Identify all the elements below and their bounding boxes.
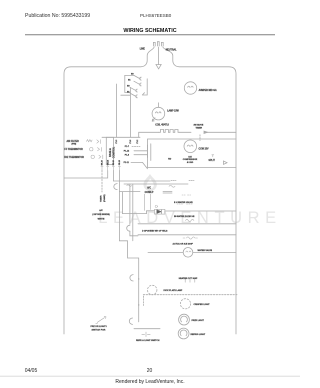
svg-text:WATER VALVE: WATER VALVE — [198, 249, 213, 252]
label compressor — [183, 156, 198, 164]
svg-text:PLHS67EESB0: PLHS67EESB0 — [140, 13, 172, 18]
wire row1 right — [165, 210, 236, 212]
svg-text:E H WATER VALVE: E H WATER VALVE — [174, 201, 193, 204]
svg-text:D SPOKE/BI WH OF HI/LS: D SPOKE/BI WH OF HI/LS — [142, 231, 168, 233]
wire P1-7 dashed — [132, 145, 140, 147]
connector arc C1 — [114, 184, 117, 190]
wire pin2 to left bus — [64, 171, 108, 179]
svg-text:CCW 15V: CCW 15V — [199, 149, 210, 151]
wire P1-12 — [134, 150, 148, 152]
wire coil to timer — [180, 131, 192, 133]
connector arc C2 — [127, 225, 130, 231]
timer cams dashed wire — [101, 171, 103, 193]
power plug prongs — [153, 42, 163, 46]
svg-text:LINE: LINE — [140, 49, 146, 51]
svg-text:KICK PLATE LAMP: KICK PLATE LAMP — [164, 289, 183, 292]
footer rule — [0, 375, 300, 377]
svg-text:(CAMS): (CAMS) — [103, 194, 106, 202]
thermistor R2 symbol — [90, 148, 93, 151]
svg-text:BK-16: BK-16 — [102, 160, 104, 165]
freezer lamp — [179, 314, 190, 325]
kick plate lamp — [148, 285, 157, 294]
svg-text:(I SPOKE INSIDE): (I SPOKE INSIDE) — [92, 214, 110, 216]
svg-text:A/C: A/C — [147, 187, 151, 190]
wire cams row2 — [124, 183, 188, 185]
svg-text:P1-2: P1-2 — [137, 140, 139, 144]
dashed lamp rail — [143, 294, 237, 296]
wire vertical feed A — [116, 84, 118, 137]
pin labels control board — [124, 146, 130, 164]
label base control rotated — [109, 146, 115, 158]
overload tick — [212, 155, 214, 157]
thermistor R1 symbol — [87, 140, 93, 142]
svg-text:ACTUA OR ICE 300F: ACTUA OR ICE 300F — [173, 243, 194, 246]
door switch box — [125, 75, 134, 92]
door switch S3 — [130, 87, 137, 92]
wire neutral side with right bus — [163, 47, 236, 334]
labels door switches — [127, 74, 134, 94]
water valve solenoid — [183, 248, 193, 258]
svg-text:SPLIT: SPLIT — [209, 160, 216, 162]
svg-text:WIRING SCHEMATIC: WIRING SCHEMATIC — [123, 28, 176, 34]
svg-text:BI-WATER DOOR HE: BI-WATER DOOR HE — [174, 215, 195, 218]
svg-text:WHITE: WHITE — [98, 218, 105, 220]
dashed feed to compressor — [199, 135, 201, 141]
wire vertical feed B — [130, 88, 132, 138]
svg-text:LAMP 15W: LAMP 15W — [167, 109, 179, 112]
svg-text:P1-12: P1-12 — [124, 151, 130, 153]
wire stub near conn — [163, 192, 172, 194]
svg-text:REFRIG LIGHT: REFRIG LIGHT — [191, 334, 206, 336]
svg-text:FRZ DR LIGHT /: FRZ DR LIGHT / — [91, 326, 108, 328]
svg-text:A/C: A/C — [99, 209, 103, 212]
wire row3 — [138, 234, 236, 236]
svg-text:Publication No: 5995433199: Publication No: 5995433199 — [25, 13, 90, 19]
wire pin4 down right — [119, 171, 172, 192]
svg-text:P1-11: P1-11 — [124, 162, 130, 164]
svg-text:3W MOVE: 3W MOVE — [194, 125, 204, 127]
defrost coil L1 — [159, 130, 180, 133]
svg-text:(P/N): (P/N) — [72, 144, 77, 146]
svg-text:FRZR LIGHT: FRZR LIGHT — [192, 320, 205, 322]
label A/C conn — [145, 187, 154, 194]
thermistor R3 symbol — [91, 155, 94, 158]
wire cluster tick — [121, 94, 130, 96]
svg-text:JUMPER MID GA: JUMPER MID GA — [199, 89, 218, 92]
cam squiggle — [127, 185, 132, 187]
watermark flame — [144, 174, 157, 191]
wire row1 left — [123, 211, 155, 214]
dashed door linkage — [143, 296, 145, 306]
freezer lamp 15W stem — [157, 103, 159, 108]
svg-text:FRZ THERMISTOR: FRZ THERMISTOR — [64, 157, 84, 159]
svg-text:COMPRESSOR: COMPRESSOR — [183, 159, 198, 161]
label freezer door switch — [91, 326, 108, 331]
door switch output wire — [142, 79, 147, 95]
vertical bus V1 — [119, 192, 138, 322]
svg-text:SWITCH FOR: SWITCH FOR — [92, 329, 106, 331]
svg-text:20: 20 — [147, 368, 153, 374]
label A/C spoke block — [92, 209, 110, 220]
junction ring — [155, 205, 157, 207]
wire P1-8 — [134, 154, 148, 156]
svg-text:LEADVENTURE: LEADVENTURE — [98, 209, 282, 227]
svg-text:NEUTRAL: NEUTRAL — [166, 49, 177, 52]
label timer cams rotated — [100, 194, 106, 202]
svg-text:OR-16: OR-16 — [119, 160, 121, 165]
svg-text:BASE &: BASE & — [109, 148, 112, 157]
svg-text:Rendered by LeadVenture, Inc.: Rendered by LeadVenture, Inc. — [115, 379, 184, 385]
svg-text:CONN.P: CONN.P — [145, 192, 154, 194]
crisper lamp — [180, 299, 190, 309]
row1 dash marks — [177, 203, 193, 205]
connector arc C4 — [129, 318, 132, 324]
title rule — [25, 34, 275, 36]
connector arc C3 — [130, 275, 133, 281]
A/C conn squiggle — [169, 185, 175, 187]
vertical bus V3 lower — [130, 231, 138, 236]
ground symbol — [156, 65, 161, 69]
diode D1 — [155, 209, 165, 214]
svg-text:REFR & LIGHT SWITCH: REFR & LIGHT SWITCH — [136, 340, 160, 342]
svg-text:RD: RD — [168, 158, 171, 160]
junction dot J2 — [138, 304, 139, 305]
svg-text:P1-3: P1-3 — [116, 140, 118, 144]
junction dot J1 — [138, 278, 139, 279]
svg-text:TIMER: TIMER — [100, 195, 102, 202]
svg-text:# 8 NG: # 8 NG — [187, 162, 194, 164]
coil feed wire — [139, 132, 159, 137]
svg-text:P1-8: P1-8 — [125, 154, 130, 156]
door switch S4 — [130, 93, 137, 98]
svg-text:COIL 45/47.8: COIL 45/47.8 — [155, 123, 169, 126]
vertical bus V4 — [132, 184, 134, 241]
svg-text:FF THERMISTOR: FF THERMISTOR — [65, 149, 84, 151]
wire row4 — [148, 252, 236, 254]
wire lamp feed — [134, 328, 160, 330]
svg-text:04/05: 04/05 — [25, 368, 38, 374]
wire P1-11 — [131, 162, 148, 168]
svg-text:P1-5: P1-5 — [130, 140, 132, 144]
connector bracket at relay box — [148, 144, 151, 161]
door switch S2 — [134, 81, 141, 86]
svg-text:TIMER: TIMER — [196, 127, 203, 129]
ground stem — [158, 47, 160, 65]
wire pin3 to cams row — [113, 171, 170, 182]
svg-text:HEATER CUT 300F: HEATER CUT 300F — [179, 277, 198, 280]
control board header bar — [102, 136, 140, 138]
freezer door switch — [96, 316, 106, 323]
wire row2 — [138, 223, 236, 225]
lamp drain arrow — [152, 118, 155, 121]
svg-text:CONTROL: CONTROL — [114, 146, 116, 158]
svg-text:CRISPER LIGHT: CRISPER LIGHT — [194, 304, 211, 306]
vertical bus V2 — [122, 192, 124, 214]
connector pins under control board — [102, 167, 119, 171]
row2 heater squiggle — [186, 219, 194, 221]
refrigerator lamp — [178, 328, 189, 339]
light switch contact symbol — [142, 332, 150, 337]
freezer lamp 15W — [152, 107, 165, 120]
door switch S1 — [134, 75, 141, 80]
defrost heater element — [185, 279, 195, 282]
row3 actuator squiggle — [183, 237, 198, 239]
tiny schematic labels — [64, 49, 217, 342]
split arrow — [224, 161, 228, 164]
dash marks right of conn — [182, 194, 191, 196]
svg-text:AIR FILTER: AIR FILTER — [67, 140, 80, 143]
svg-text:RD-16: RD-16 — [113, 160, 115, 165]
vertical bus V3 — [129, 184, 131, 224]
rotated pin labels above board — [116, 140, 139, 144]
svg-text:WH-16: WH-16 — [107, 160, 109, 165]
dashed bracket near A/C conn — [171, 179, 194, 181]
control board box — [106, 137, 113, 164]
svg-text:ICE: ICE — [188, 156, 192, 158]
rotated wire labels under board — [102, 160, 121, 165]
relay compartment box — [148, 139, 237, 168]
conn leads to diode — [144, 194, 150, 210]
wire line side with left bus — [64, 47, 154, 334]
jumper lamp — [184, 82, 196, 94]
wire timer to right bus with arrow — [206, 131, 236, 133]
svg-text:NC: NC — [128, 79, 131, 81]
svg-text:P1-7: P1-7 — [125, 146, 130, 148]
compressor motor M1 — [184, 140, 197, 153]
